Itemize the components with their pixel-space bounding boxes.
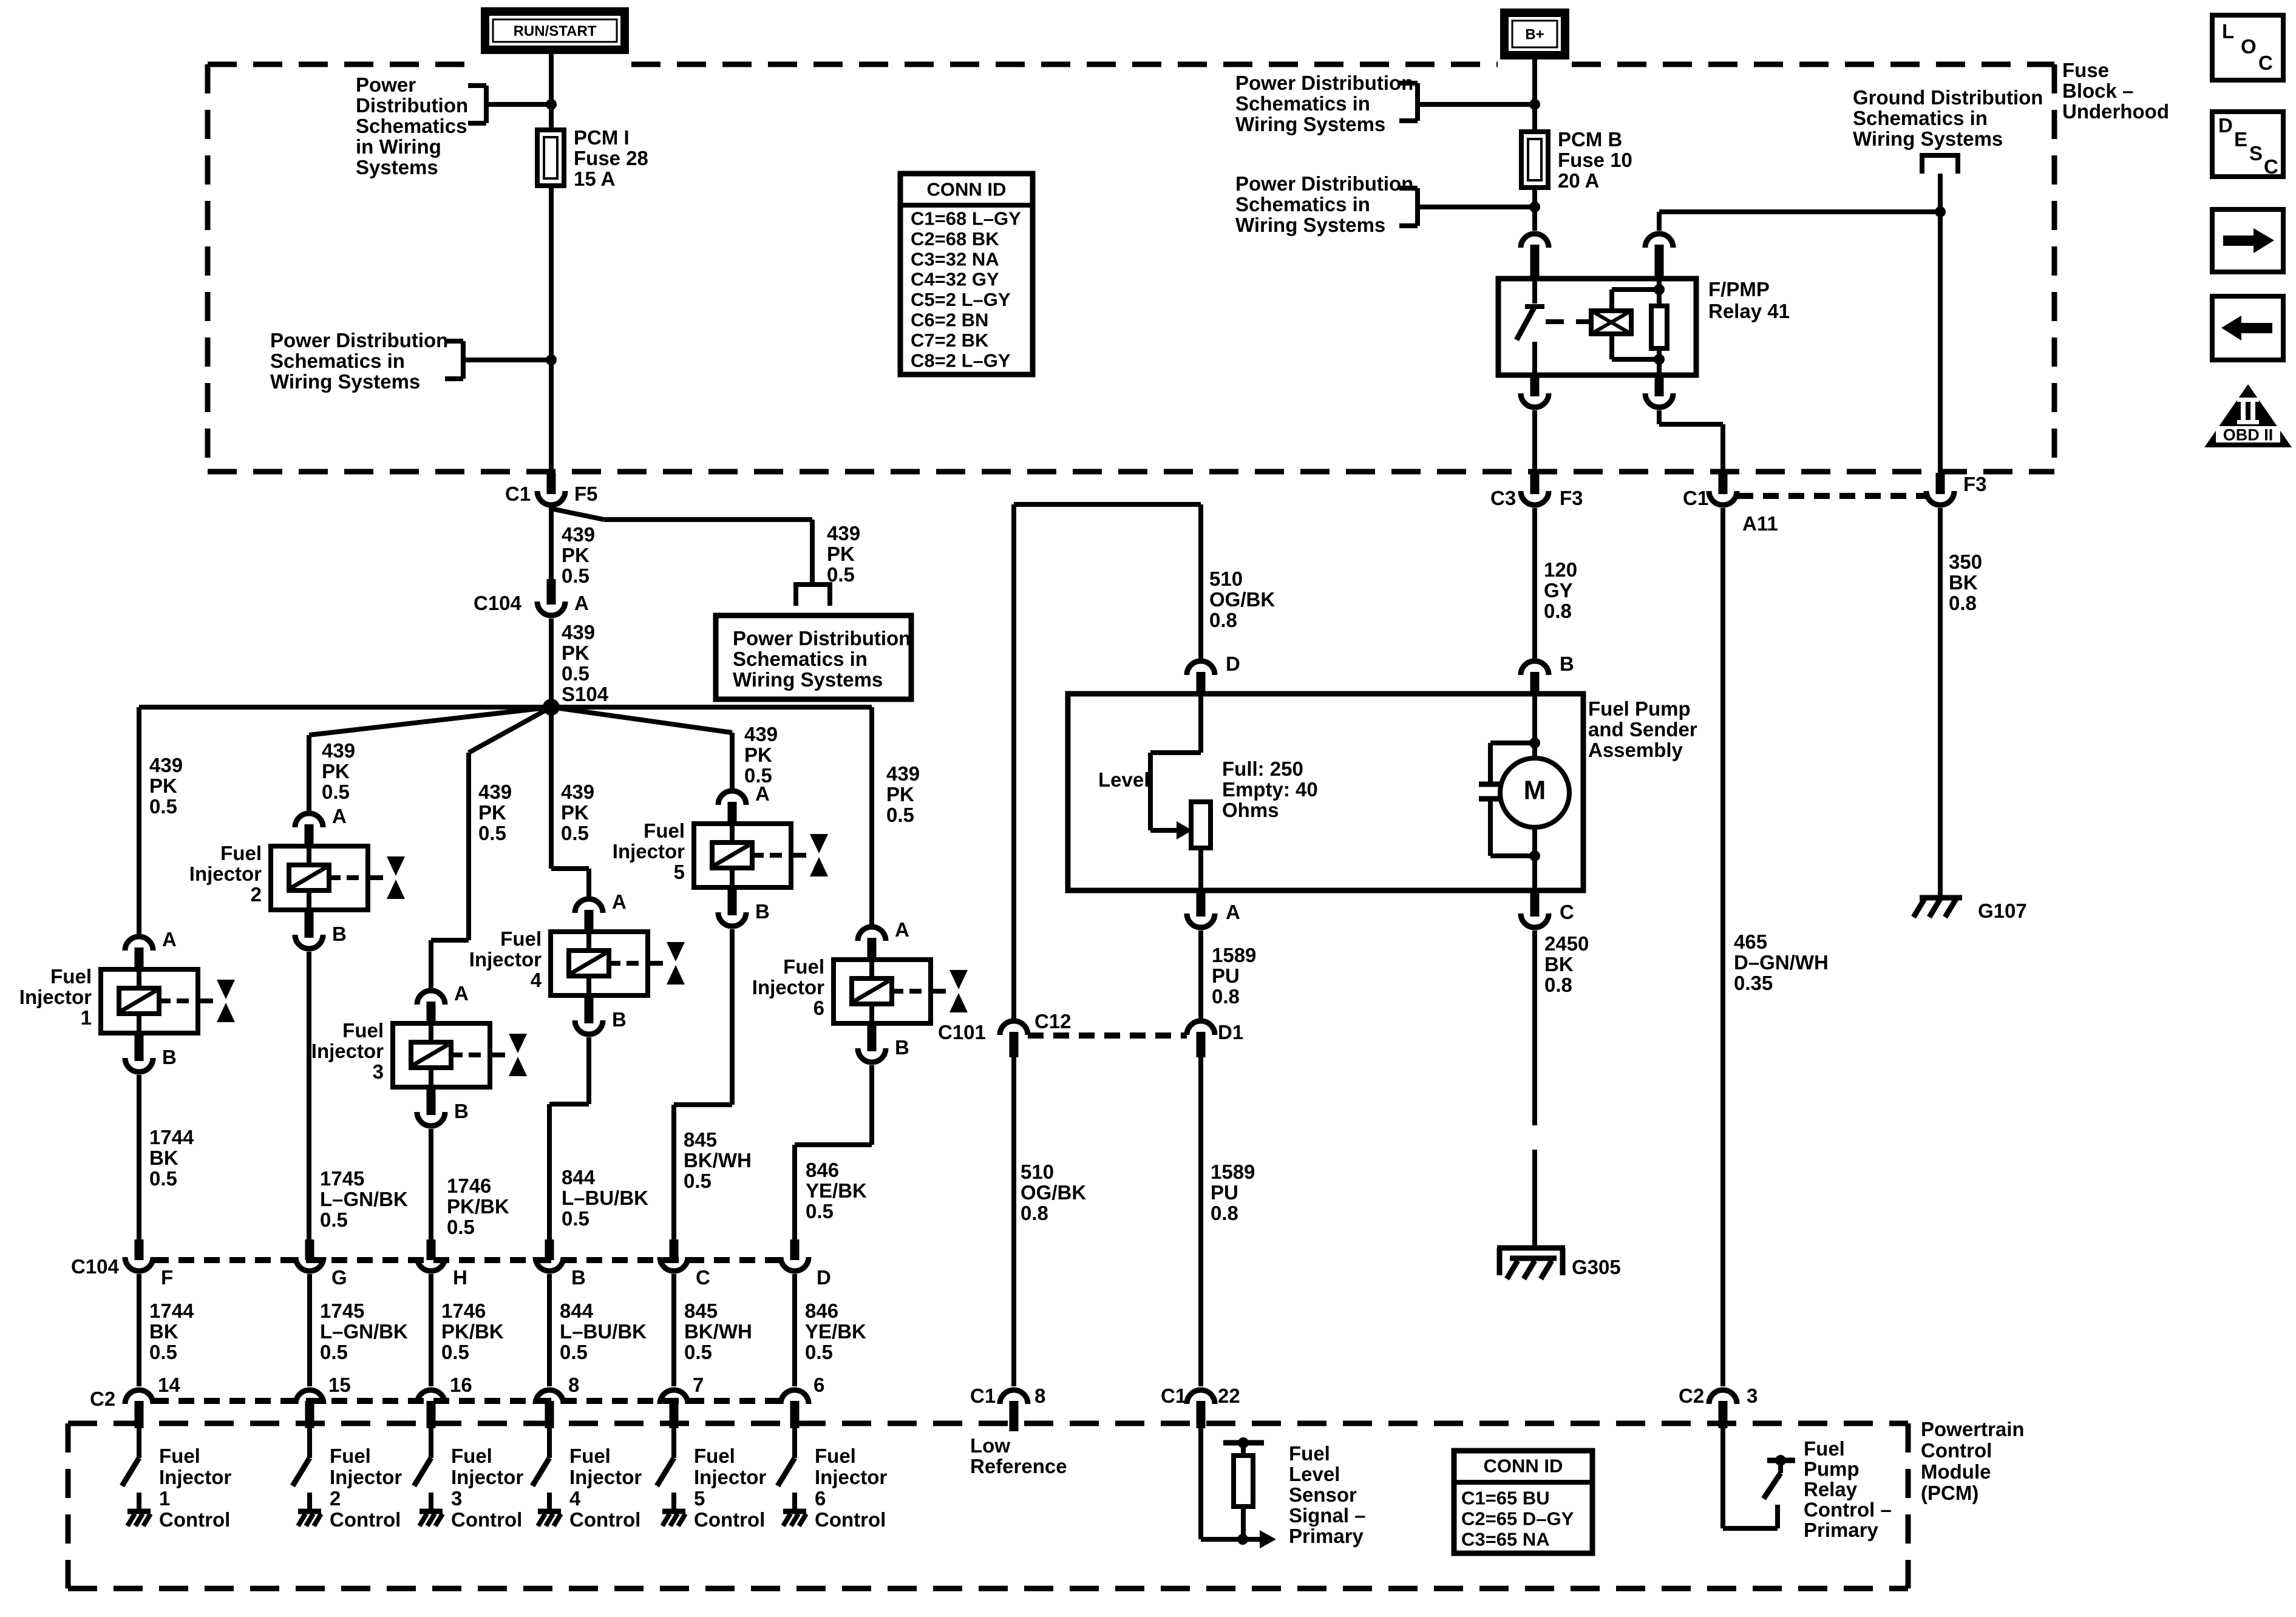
svg-text:0.5: 0.5 xyxy=(562,1207,589,1230)
svg-text:15 A: 15 A xyxy=(574,168,615,190)
svg-text:Low: Low xyxy=(970,1434,1010,1457)
svg-text:C3=65 NA: C3=65 NA xyxy=(1461,1529,1550,1550)
svg-text:510: 510 xyxy=(1209,568,1243,590)
svg-text:OG/BK: OG/BK xyxy=(1209,588,1275,611)
svg-text:Fuel: Fuel xyxy=(50,965,92,988)
svg-text:1745: 1745 xyxy=(320,1167,364,1190)
svg-text:Wiring Systems: Wiring Systems xyxy=(270,370,420,393)
svg-text:0.8: 0.8 xyxy=(1544,600,1572,622)
svg-text:Fuel: Fuel xyxy=(220,842,262,864)
svg-text:0.5: 0.5 xyxy=(149,795,177,818)
svg-text:1589: 1589 xyxy=(1212,944,1256,966)
svg-text:RUN/START: RUN/START xyxy=(514,23,597,39)
svg-text:G: G xyxy=(331,1266,347,1289)
svg-text:Control –: Control – xyxy=(1804,1499,1892,1521)
svg-text:2: 2 xyxy=(330,1487,341,1510)
svg-text:844: 844 xyxy=(562,1166,596,1188)
svg-text:1744: 1744 xyxy=(149,1126,194,1148)
svg-text:0.8: 0.8 xyxy=(1212,985,1240,1008)
svg-text:A: A xyxy=(755,782,770,805)
svg-text:C101: C101 xyxy=(938,1021,986,1043)
svg-text:Block –: Block – xyxy=(2062,80,2133,102)
svg-text:Control: Control xyxy=(451,1508,522,1531)
svg-text:PK: PK xyxy=(827,543,855,565)
svg-text:439: 439 xyxy=(562,523,595,546)
svg-text:C1: C1 xyxy=(1683,487,1708,509)
svg-text:PK: PK xyxy=(562,544,589,566)
svg-text:Wiring Systems: Wiring Systems xyxy=(733,668,883,691)
svg-text:Schematics: Schematics xyxy=(356,115,467,137)
svg-text:Control: Control xyxy=(694,1508,765,1531)
svg-text:PK: PK xyxy=(478,801,506,824)
svg-text:0.5: 0.5 xyxy=(149,1341,177,1363)
svg-text:H: H xyxy=(453,1266,467,1289)
svg-text:Primary: Primary xyxy=(1804,1519,1879,1541)
svg-text:C1=65 BU: C1=65 BU xyxy=(1461,1488,1550,1509)
svg-text:C: C xyxy=(2264,155,2278,178)
svg-text:Relay 41: Relay 41 xyxy=(1708,300,1790,322)
svg-text:0.5: 0.5 xyxy=(447,1216,475,1238)
svg-text:PK/BK: PK/BK xyxy=(441,1320,504,1343)
svg-text:16: 16 xyxy=(450,1374,472,1396)
svg-text:Control: Control xyxy=(330,1508,401,1531)
svg-text:B: B xyxy=(1560,653,1574,675)
svg-text:C: C xyxy=(2258,52,2273,74)
svg-text:Injector: Injector xyxy=(451,1466,523,1488)
svg-text:BK: BK xyxy=(149,1147,178,1169)
svg-text:Wiring Systems: Wiring Systems xyxy=(1235,214,1385,236)
svg-text:Ohms: Ohms xyxy=(1222,799,1279,821)
svg-text:Sensor: Sensor xyxy=(1289,1483,1357,1506)
svg-text:845: 845 xyxy=(684,1128,717,1151)
svg-text:0.5: 0.5 xyxy=(827,563,855,586)
svg-text:0.8: 0.8 xyxy=(1209,609,1237,631)
svg-text:6: 6 xyxy=(813,997,824,1019)
svg-text:439: 439 xyxy=(561,781,594,803)
svg-text:1746: 1746 xyxy=(447,1175,491,1197)
svg-text:B: B xyxy=(755,900,770,923)
svg-text:OG/BK: OG/BK xyxy=(1021,1181,1086,1204)
svg-text:6: 6 xyxy=(815,1487,826,1510)
svg-text:Ground Distribution: Ground Distribution xyxy=(1853,86,2043,109)
svg-text:F3: F3 xyxy=(1963,473,1987,495)
svg-text:Control: Control xyxy=(1921,1439,1992,1462)
svg-text:350: 350 xyxy=(1949,551,1982,573)
svg-text:B: B xyxy=(571,1266,586,1289)
svg-text:0.35: 0.35 xyxy=(1734,972,1773,994)
svg-text:Injector: Injector xyxy=(189,863,262,885)
svg-text:845: 845 xyxy=(684,1300,718,1322)
svg-text:D: D xyxy=(1226,653,1240,675)
svg-text:YE/BK: YE/BK xyxy=(805,1320,866,1343)
svg-text:8: 8 xyxy=(1034,1385,1045,1407)
svg-text:1589: 1589 xyxy=(1211,1161,1255,1183)
svg-text:PCM B: PCM B xyxy=(1558,128,1622,151)
svg-text:Injector: Injector xyxy=(159,1466,231,1488)
svg-text:PK: PK xyxy=(562,642,589,664)
svg-text:A11: A11 xyxy=(1742,512,1778,535)
svg-text:Fuel: Fuel xyxy=(1804,1437,1845,1460)
svg-text:PK: PK xyxy=(561,801,589,824)
svg-text:5: 5 xyxy=(694,1487,705,1510)
svg-text:PK/BK: PK/BK xyxy=(447,1195,509,1218)
svg-text:C5=2 L–GY: C5=2 L–GY xyxy=(911,289,1011,310)
svg-text:C2=65 D–GY: C2=65 D–GY xyxy=(1461,1508,1574,1530)
svg-text:Fuel: Fuel xyxy=(815,1445,856,1467)
svg-text:439: 439 xyxy=(744,723,778,745)
svg-text:Injector: Injector xyxy=(469,948,542,971)
svg-text:Control: Control xyxy=(569,1508,640,1531)
svg-text:C1: C1 xyxy=(505,483,531,505)
svg-text:Signal –: Signal – xyxy=(1289,1504,1366,1527)
svg-text:L–BU/BK: L–BU/BK xyxy=(560,1320,647,1343)
svg-text:0.5: 0.5 xyxy=(320,1341,348,1363)
svg-text:BK: BK xyxy=(1544,953,1574,975)
svg-text:in Wiring: in Wiring xyxy=(356,135,441,158)
svg-text:B: B xyxy=(332,923,347,945)
svg-text:439: 439 xyxy=(478,781,512,803)
svg-text:B: B xyxy=(612,1008,627,1031)
svg-text:20 A: 20 A xyxy=(1558,169,1599,192)
svg-text:510: 510 xyxy=(1021,1161,1054,1183)
svg-text:A: A xyxy=(332,805,347,827)
svg-text:Power Distribution: Power Distribution xyxy=(1235,172,1413,195)
svg-text:B: B xyxy=(454,1100,469,1122)
svg-text:Fuel: Fuel xyxy=(500,927,542,950)
svg-text:C2=68 BK: C2=68 BK xyxy=(911,228,999,249)
svg-text:Systems: Systems xyxy=(356,156,438,178)
svg-text:PU: PU xyxy=(1211,1181,1238,1204)
svg-text:Empty: 40: Empty: 40 xyxy=(1222,778,1318,801)
svg-text:F5: F5 xyxy=(574,483,598,505)
svg-text:Fuel: Fuel xyxy=(330,1445,371,1467)
svg-text:PK: PK xyxy=(149,775,177,797)
svg-text:Fuse 10: Fuse 10 xyxy=(1558,149,1632,171)
svg-text:S104: S104 xyxy=(562,683,609,705)
svg-text:5: 5 xyxy=(674,861,685,883)
svg-text:Powertrain: Powertrain xyxy=(1921,1418,2025,1440)
svg-text:Power Distribution: Power Distribution xyxy=(733,627,911,649)
svg-text:3: 3 xyxy=(373,1060,384,1083)
svg-text:2: 2 xyxy=(251,883,262,906)
svg-text:G305: G305 xyxy=(1572,1256,1621,1278)
svg-text:439: 439 xyxy=(886,762,920,785)
svg-text:Fuel: Fuel xyxy=(783,955,824,978)
svg-text:0.5: 0.5 xyxy=(806,1200,834,1222)
svg-text:C2: C2 xyxy=(1679,1385,1704,1407)
svg-text:Power Distribution: Power Distribution xyxy=(1235,72,1413,94)
svg-text:Fuse 28: Fuse 28 xyxy=(574,147,648,169)
svg-text:0.8: 0.8 xyxy=(1949,592,1977,614)
svg-text:BK: BK xyxy=(149,1320,178,1343)
svg-text:Fuel: Fuel xyxy=(451,1445,492,1467)
svg-text:(PCM): (PCM) xyxy=(1921,1482,1978,1504)
svg-text:Injector: Injector xyxy=(752,976,824,998)
svg-text:C104: C104 xyxy=(71,1255,120,1278)
svg-text:GY: GY xyxy=(1544,579,1573,602)
svg-text:PK: PK xyxy=(744,744,772,766)
svg-text:C104: C104 xyxy=(474,592,522,614)
svg-text:Schematics in: Schematics in xyxy=(1853,107,1988,129)
svg-text:C: C xyxy=(1560,901,1574,923)
svg-text:844: 844 xyxy=(560,1300,594,1322)
svg-text:Control: Control xyxy=(815,1508,886,1531)
svg-text:C6=2 BN: C6=2 BN xyxy=(911,310,988,331)
svg-text:Control: Control xyxy=(159,1508,230,1531)
svg-text:Level: Level xyxy=(1098,768,1149,791)
svg-text:439: 439 xyxy=(149,754,183,776)
svg-text:2450: 2450 xyxy=(1544,932,1589,955)
svg-text:C3=32 NA: C3=32 NA xyxy=(911,248,999,269)
svg-text:846: 846 xyxy=(806,1159,839,1181)
svg-text:22: 22 xyxy=(1218,1385,1240,1407)
svg-text:0.5: 0.5 xyxy=(320,1209,348,1231)
svg-text:Fuel: Fuel xyxy=(1289,1442,1330,1465)
svg-text:L–GN/BK: L–GN/BK xyxy=(320,1188,408,1210)
svg-text:and Sender: and Sender xyxy=(1588,718,1697,741)
svg-text:Wiring Systems: Wiring Systems xyxy=(1853,127,2003,150)
svg-text:Underhood: Underhood xyxy=(2062,100,2169,123)
svg-text:Fuel: Fuel xyxy=(569,1445,611,1467)
svg-text:3: 3 xyxy=(451,1487,462,1510)
svg-text:S: S xyxy=(2249,142,2263,164)
svg-text:A: A xyxy=(895,918,909,941)
svg-text:A: A xyxy=(162,928,177,951)
svg-text:F3: F3 xyxy=(1560,487,1583,509)
svg-text:Injector: Injector xyxy=(19,986,92,1008)
svg-text:B+: B+ xyxy=(1525,27,1544,43)
svg-text:D–GN/WH: D–GN/WH xyxy=(1734,951,1829,974)
svg-text:L: L xyxy=(2222,20,2234,42)
svg-text:Injector: Injector xyxy=(815,1466,887,1488)
svg-text:14: 14 xyxy=(158,1374,180,1396)
svg-text:Power Distribution: Power Distribution xyxy=(270,329,448,351)
svg-text:PK: PK xyxy=(322,760,350,782)
svg-text:B: B xyxy=(162,1046,177,1068)
svg-text:PK: PK xyxy=(886,783,914,805)
svg-text:Module: Module xyxy=(1921,1460,1991,1483)
svg-text:3: 3 xyxy=(1747,1385,1758,1407)
svg-text:C1: C1 xyxy=(1161,1385,1186,1407)
svg-text:Level: Level xyxy=(1289,1463,1340,1485)
svg-text:Fuel Pump: Fuel Pump xyxy=(1588,697,1691,720)
svg-text:Primary: Primary xyxy=(1289,1525,1364,1547)
svg-text:1: 1 xyxy=(159,1487,170,1510)
svg-text:0.8: 0.8 xyxy=(1021,1202,1048,1224)
svg-text:Full: 250: Full: 250 xyxy=(1222,758,1303,780)
svg-text:CONN ID: CONN ID xyxy=(1484,1456,1563,1477)
svg-text:7: 7 xyxy=(693,1374,704,1396)
svg-text:C7=2 BK: C7=2 BK xyxy=(911,330,989,351)
svg-text:E: E xyxy=(2234,128,2247,151)
svg-text:0.5: 0.5 xyxy=(684,1170,712,1192)
svg-text:G107: G107 xyxy=(1978,900,2027,922)
svg-text:PU: PU xyxy=(1212,964,1240,987)
svg-text:CONN ID: CONN ID xyxy=(927,179,1007,200)
svg-text:C1=68 L–GY: C1=68 L–GY xyxy=(911,208,1021,229)
svg-text:0.5: 0.5 xyxy=(886,804,914,826)
svg-text:M: M xyxy=(1524,775,1546,805)
svg-text:C4=32 GY: C4=32 GY xyxy=(911,269,999,290)
svg-text:Pump: Pump xyxy=(1804,1458,1860,1480)
svg-text:Reference: Reference xyxy=(970,1455,1067,1477)
svg-text:Schematics in: Schematics in xyxy=(270,350,405,372)
svg-text:0.5: 0.5 xyxy=(441,1341,469,1363)
svg-text:Injector: Injector xyxy=(694,1466,766,1488)
svg-text:Schematics in: Schematics in xyxy=(1235,193,1370,215)
svg-text:0.5: 0.5 xyxy=(684,1341,712,1363)
svg-text:0.5: 0.5 xyxy=(149,1167,177,1190)
svg-text:Fuel: Fuel xyxy=(159,1445,200,1467)
svg-text:Fuel: Fuel xyxy=(644,819,685,842)
svg-text:6: 6 xyxy=(813,1374,824,1396)
svg-text:0.5: 0.5 xyxy=(805,1341,833,1363)
svg-text:465: 465 xyxy=(1734,931,1767,953)
svg-text:1: 1 xyxy=(81,1006,92,1029)
svg-text:OBD II: OBD II xyxy=(2223,426,2274,444)
svg-text:Schematics in: Schematics in xyxy=(1235,92,1370,115)
svg-text:120: 120 xyxy=(1544,558,1577,581)
svg-text:4: 4 xyxy=(569,1487,581,1510)
svg-text:C2: C2 xyxy=(90,1388,115,1410)
svg-text:C1: C1 xyxy=(970,1385,996,1407)
svg-text:Distribution: Distribution xyxy=(356,94,468,117)
svg-text:0.5: 0.5 xyxy=(561,822,589,844)
svg-text:0.8: 0.8 xyxy=(1211,1202,1238,1224)
svg-text:Assembly: Assembly xyxy=(1588,739,1683,761)
svg-text:A: A xyxy=(1226,901,1240,923)
svg-text:PCM I: PCM I xyxy=(574,126,630,149)
svg-text:0.5: 0.5 xyxy=(322,781,350,803)
svg-text:BK: BK xyxy=(1949,571,1978,594)
svg-text:A: A xyxy=(574,592,589,614)
svg-text:F: F xyxy=(161,1266,173,1289)
svg-text:Wiring Systems: Wiring Systems xyxy=(1235,113,1385,135)
svg-text:D: D xyxy=(817,1266,831,1289)
svg-text:A: A xyxy=(612,890,627,913)
svg-text:0.8: 0.8 xyxy=(1544,974,1572,996)
svg-text:0.5: 0.5 xyxy=(562,564,589,587)
svg-text:C8=2 L–GY: C8=2 L–GY xyxy=(911,350,1011,371)
svg-text:1746: 1746 xyxy=(441,1300,486,1322)
svg-text:F/PMP: F/PMP xyxy=(1708,278,1770,300)
svg-text:Injector: Injector xyxy=(613,840,685,863)
svg-text:Injector: Injector xyxy=(330,1466,402,1488)
svg-text:Injector: Injector xyxy=(311,1040,384,1062)
svg-text:D: D xyxy=(2218,114,2233,137)
svg-text:0.5: 0.5 xyxy=(562,662,589,685)
svg-text:Fuel: Fuel xyxy=(694,1445,735,1467)
svg-text:Fuse: Fuse xyxy=(2062,59,2109,81)
svg-text:Fuel: Fuel xyxy=(342,1019,384,1042)
svg-text:439: 439 xyxy=(322,739,355,762)
svg-text:15: 15 xyxy=(328,1374,351,1396)
svg-text:Power: Power xyxy=(356,73,416,96)
svg-text:YE/BK: YE/BK xyxy=(806,1179,867,1202)
svg-text:439: 439 xyxy=(827,522,860,544)
svg-text:0.5: 0.5 xyxy=(560,1341,588,1363)
svg-text:C12: C12 xyxy=(1034,1010,1072,1032)
svg-text:Injector: Injector xyxy=(569,1466,642,1488)
svg-text:O: O xyxy=(2241,35,2257,58)
svg-text:A: A xyxy=(454,982,469,1005)
svg-text:1744: 1744 xyxy=(149,1300,194,1322)
svg-text:C3: C3 xyxy=(1490,487,1516,509)
svg-text:4: 4 xyxy=(531,969,542,991)
svg-text:BK/WH: BK/WH xyxy=(684,1320,752,1343)
svg-text:439: 439 xyxy=(562,621,595,643)
svg-text:B: B xyxy=(895,1036,909,1059)
svg-text:D1: D1 xyxy=(1218,1021,1243,1043)
svg-text:0.5: 0.5 xyxy=(478,822,506,844)
svg-text:L–BU/BK: L–BU/BK xyxy=(562,1187,648,1209)
svg-text:L–GN/BK: L–GN/BK xyxy=(320,1320,408,1343)
svg-text:1745: 1745 xyxy=(320,1300,364,1322)
svg-text:Schematics in: Schematics in xyxy=(733,648,868,670)
svg-text:Relay: Relay xyxy=(1804,1478,1858,1500)
svg-text:8: 8 xyxy=(568,1374,579,1396)
svg-text:BK/WH: BK/WH xyxy=(684,1149,752,1171)
svg-text:C: C xyxy=(696,1266,710,1289)
svg-text:846: 846 xyxy=(805,1300,838,1322)
